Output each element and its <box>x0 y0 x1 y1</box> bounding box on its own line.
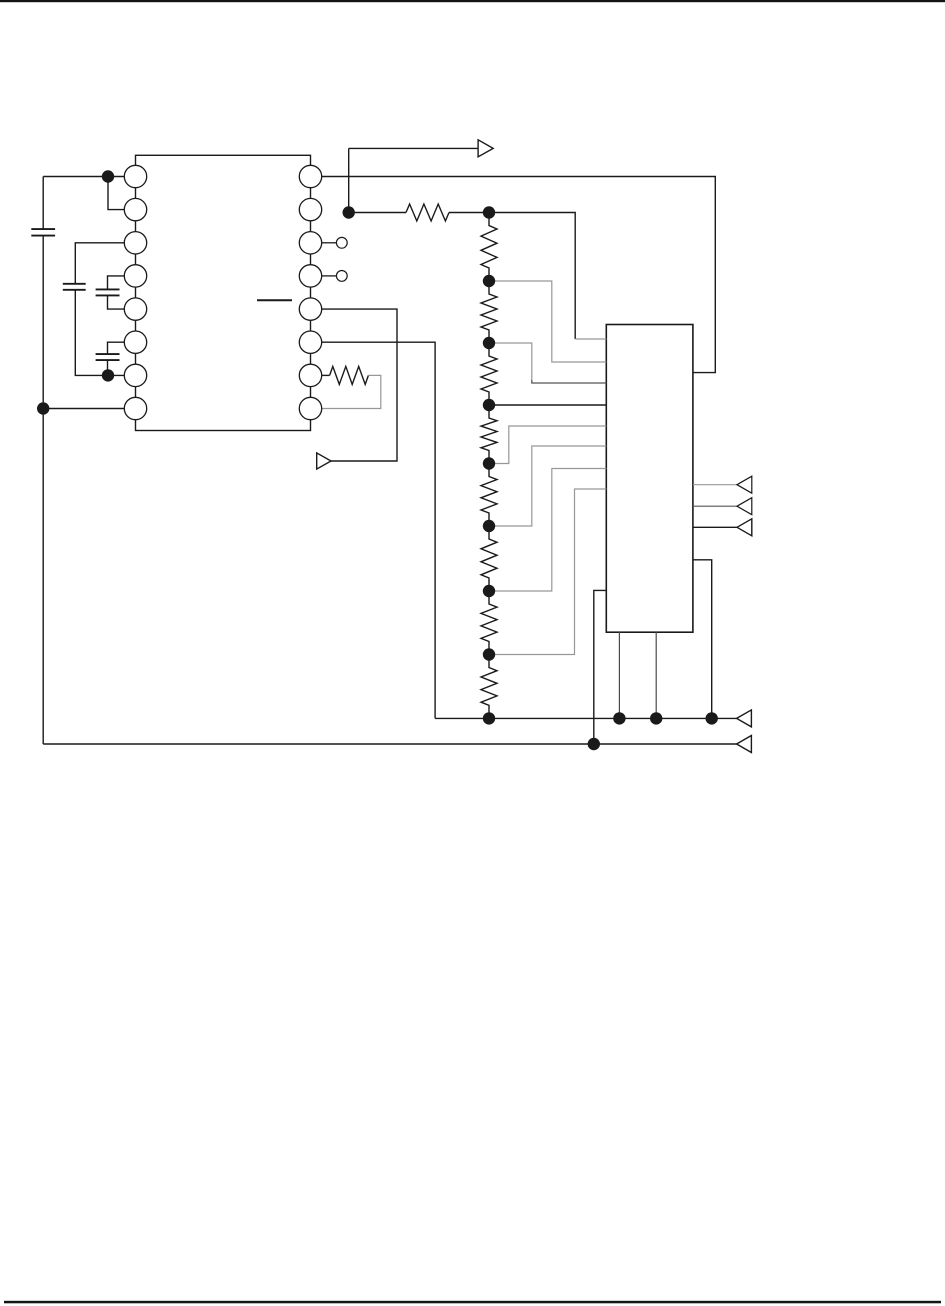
node pin L1 junction <box>102 170 114 182</box>
wire R2 elbow to pin R8 <box>322 375 381 408</box>
node ladder bottom <box>483 712 495 724</box>
wire pin L6 to C4 <box>108 342 125 354</box>
wire pin R6 down to bottom net <box>322 342 436 718</box>
ladder resistor R4 <box>481 281 497 343</box>
wire left rail lower (C1 to bottom net) <box>42 236 44 744</box>
node left rail pin L8 junction <box>37 402 49 414</box>
capacitor C4 <box>96 354 120 360</box>
wire ladder node 1 stub into U2 <box>575 338 606 340</box>
page top rule <box>0 0 945 2</box>
gray nets <box>322 281 738 655</box>
wire ladder node 6 to U2 <box>489 446 606 526</box>
pin R7 <box>299 364 321 386</box>
pin R3 <box>299 232 321 254</box>
bar label inside U1 <box>257 299 292 301</box>
IC U1 body <box>136 155 311 430</box>
pin L2 <box>124 198 146 220</box>
capacitor C3 <box>96 289 120 295</box>
output port arrow (left) 2 <box>737 498 752 515</box>
wire ladder node 3 dark stub into U2 <box>532 380 607 383</box>
port arrow bottom 2 <box>737 736 752 753</box>
wire U2 output 3 <box>693 526 737 528</box>
pin L6 <box>124 331 146 353</box>
pin L7 <box>124 364 146 386</box>
bottom net wire 1 <box>435 717 736 719</box>
wire output port branch vertical <box>348 148 350 212</box>
wire U2 output 1 <box>693 484 737 486</box>
NC circle pin R3 <box>336 237 347 248</box>
output port arrow (right) <box>478 140 493 157</box>
input port arrow <box>317 453 331 469</box>
U1 pin circles <box>124 165 321 419</box>
ladder resistor R10 <box>481 655 497 719</box>
IC U2 body <box>606 325 693 633</box>
ladder resistor R3 <box>481 213 497 282</box>
resistor R2 <box>330 366 369 384</box>
NC stub pin R3 <box>322 242 337 244</box>
ladder resistor R5 <box>481 343 497 405</box>
wire pin L3 to C2 <box>75 243 124 284</box>
wire left rail upper (to capacitor C1) <box>42 177 44 230</box>
ladder resistor R8 <box>481 526 497 591</box>
ladder resistor R6 <box>481 405 497 464</box>
node output branch junction <box>343 206 355 218</box>
wire ladder node 7 to U2 <box>489 469 606 592</box>
pin R2 <box>299 198 321 220</box>
node bottom net c <box>706 712 718 724</box>
wire U2 output 2 <box>693 505 737 507</box>
pin L4 <box>124 265 146 287</box>
wire R1 to ladder top node <box>449 212 489 214</box>
ladder resistor R7 <box>481 464 497 527</box>
capacitor C1 <box>31 229 55 236</box>
node ladder 2 <box>483 275 495 287</box>
wire U2 bottom pin b to net <box>655 632 657 718</box>
NC stub pin R4 <box>322 275 337 277</box>
wire ladder node 3 to U2 <box>489 343 532 380</box>
wire pin R1 loop to U2 right side <box>322 177 716 373</box>
node bottom net a <box>613 712 625 724</box>
capacitor C2 <box>63 284 86 290</box>
resistor R2 lead <box>322 374 330 376</box>
wire node to resistor R1 <box>349 212 406 214</box>
pin L3 <box>124 232 146 254</box>
resistor R1 <box>406 204 449 221</box>
wire C4 to node at pin L7 <box>107 360 109 375</box>
node pin L7 junction <box>102 369 114 381</box>
wire U2 bottom pin a to net <box>618 632 620 718</box>
wire C3 to pin L5 <box>108 295 125 309</box>
page bottom rule <box>4 1301 941 1304</box>
wire ladder node 4 to U2 pin <box>489 404 606 406</box>
wire ladder node 8 to U2 <box>489 489 606 655</box>
wire pin L1 to left rail <box>43 176 124 178</box>
pin R5 <box>299 298 321 320</box>
port arrow bottom 1 <box>737 710 752 727</box>
wire ladder node 2 to U2 <box>489 281 606 362</box>
pin R6 <box>299 331 321 353</box>
pin L8 <box>124 397 146 419</box>
pin L1 <box>124 165 146 187</box>
node ladder 5 <box>483 457 495 469</box>
node ladder 7 <box>483 585 495 597</box>
ladder resistor R9 <box>481 591 497 655</box>
node ladder 1 <box>483 206 495 218</box>
bottom net wire 2 <box>43 743 736 745</box>
node ladder 6 <box>483 520 495 532</box>
wire ladder node 1 to U2 pin <box>489 213 575 340</box>
output port arrow (left) 3 <box>737 519 752 536</box>
node bottom rail <box>588 738 600 750</box>
output port arrow (left) 1 <box>737 476 752 493</box>
wire pin L8 to left rail <box>43 408 124 410</box>
pin R1 <box>299 165 321 187</box>
wire to output arrow <box>349 147 478 149</box>
wire U2 right to bottom net <box>693 560 712 719</box>
wire pin R5 to input arrow <box>322 309 398 461</box>
pin L5 <box>124 298 146 320</box>
wire U2 left pin to bottom rail <box>594 590 607 744</box>
pin R8 <box>299 397 321 419</box>
wire pin L4 to C3 <box>108 276 125 290</box>
node ladder 8 <box>483 648 495 660</box>
wire C2 to node at pin L7 <box>75 290 124 376</box>
wire bracket pin L1 to pin L2 <box>108 177 125 210</box>
wire ladder node 5 to U2 <box>489 426 606 464</box>
node ladder 4 <box>483 399 495 411</box>
node ladder 3 <box>483 337 495 349</box>
pin R4 <box>299 265 321 287</box>
NC circle pin R4 <box>336 271 347 282</box>
node bottom net b <box>650 712 662 724</box>
